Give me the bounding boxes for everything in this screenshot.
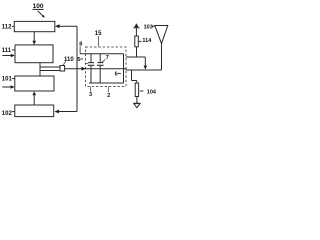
svg-text:6: 6: [115, 71, 118, 77]
wire into 112: [59, 25, 77, 27]
bottom rail: [89, 82, 124, 84]
label 5: [77, 57, 80, 63]
label 7: [106, 55, 109, 61]
svg-text:5: 5: [77, 57, 80, 63]
block 101: [15, 76, 54, 91]
coupling arrow down: [144, 57, 146, 66]
svg-text:102: 102: [2, 111, 13, 117]
label 104: [140, 90, 144, 92]
block 102: [15, 105, 54, 117]
ground: [133, 102, 140, 104]
label 114: [139, 40, 142, 42]
input arrow into 111: [2, 55, 11, 57]
block 110: [60, 66, 65, 72]
arrow 112 to 111: [33, 32, 35, 41]
svg-text:7: 7: [106, 55, 109, 61]
label 100: [32, 3, 44, 18]
label 2: [107, 93, 110, 99]
svg-text:111: 111: [2, 48, 12, 54]
block 111: [15, 45, 53, 63]
capacitor 7b: [99, 54, 101, 63]
label 15: [95, 31, 102, 37]
block 112: [14, 21, 55, 31]
label 110: [64, 57, 74, 63]
supply arrow: [135, 28, 137, 36]
resistor 104: [135, 83, 138, 97]
antenna 103: [155, 26, 168, 44]
resistor 114: [135, 36, 139, 47]
wire right column: [76, 26, 78, 111]
label 112: [2, 25, 12, 31]
stub node into capacitor 7a: [86, 63, 89, 65]
label 102: [2, 111, 13, 117]
label 111: [2, 48, 12, 54]
svg-text:114: 114: [142, 38, 152, 44]
svg-text:104: 104: [147, 89, 157, 95]
top rail: [80, 53, 123, 55]
label 6: [115, 71, 118, 77]
svg-text:2: 2: [107, 93, 110, 99]
dashed box 15: [86, 47, 127, 86]
svg-text:112: 112: [2, 25, 12, 31]
capacitor 7a: [90, 54, 92, 63]
wire into 102: [59, 111, 77, 113]
label 103: [144, 24, 153, 30]
arrow 102 to 101: [33, 95, 35, 105]
svg-text:3: 3: [89, 92, 92, 98]
wire resistor 114 down: [136, 47, 138, 57]
label 3: [89, 92, 92, 98]
wire y57: [126, 56, 145, 58]
input arrow into 101: [2, 86, 11, 88]
element 6: [123, 54, 125, 83]
wire to ground: [136, 97, 138, 104]
svg-text:103: 103: [144, 24, 153, 30]
svg-text:101: 101: [2, 77, 13, 83]
label 101: [2, 77, 13, 83]
branch to resistor 104: [131, 70, 133, 81]
node 8: [79, 41, 82, 47]
wire 110 to antenna line: [65, 68, 126, 70]
bus to 110: [39, 63, 41, 76]
